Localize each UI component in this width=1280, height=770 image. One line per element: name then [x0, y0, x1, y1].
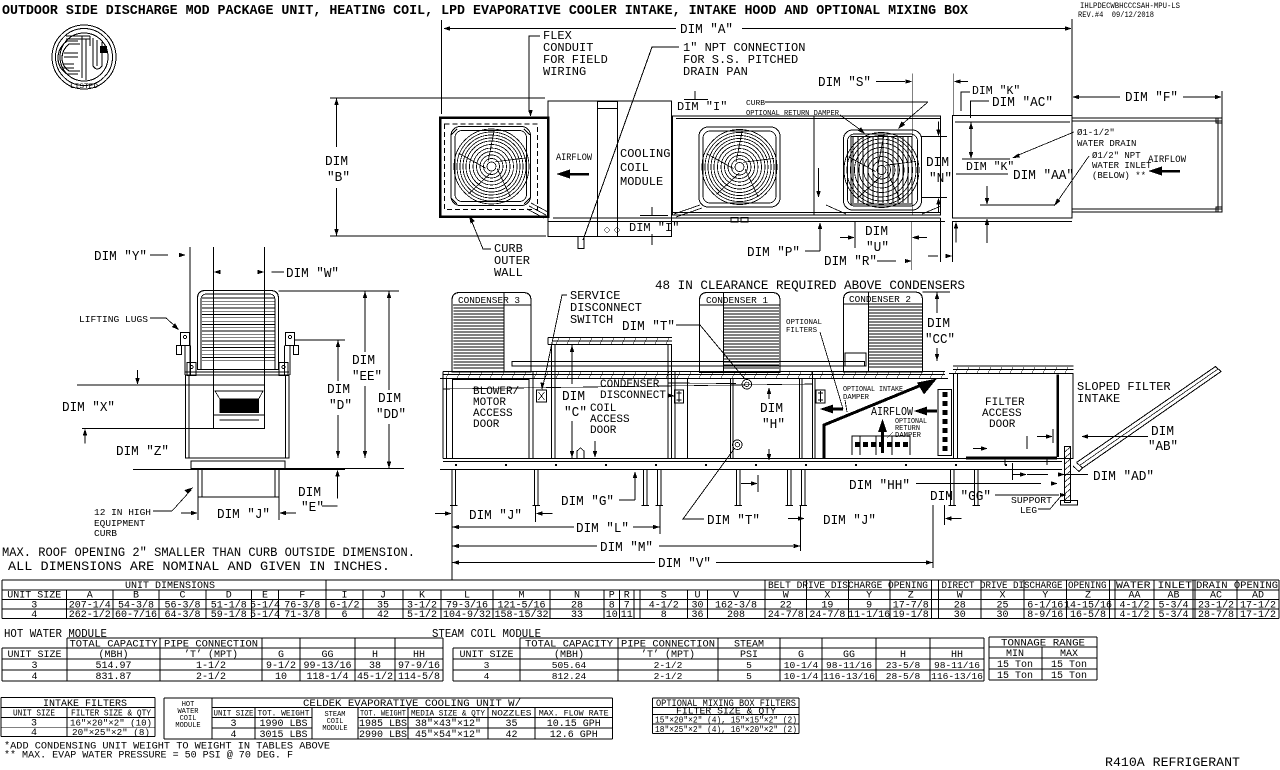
- svg-text:WIRING: WIRING: [543, 65, 586, 79]
- dim D: [295, 339, 345, 341]
- optional mixing box filters table: [653, 698, 800, 735]
- svg-text:DIM ″I″: DIM ″I″: [677, 100, 727, 114]
- plan main unit body: [673, 116, 941, 215]
- condensate pan slope line: [443, 384, 812, 389]
- panel disconnect box left: [675, 390, 684, 403]
- svg-text:30: 30: [996, 610, 1008, 621]
- svg-text:42: 42: [377, 610, 389, 621]
- svg-text:DOOR: DOOR: [989, 419, 1016, 431]
- receptacle circle bottom: [733, 440, 743, 450]
- svg-text:10-1/4: 10-1/4: [784, 671, 819, 682]
- svg-text:DIM: DIM: [327, 382, 350, 398]
- door right jamb: [528, 380, 530, 459]
- svg-text:97-9/16: 97-9/16: [398, 660, 440, 672]
- svg-text:98-11/16: 98-11/16: [826, 660, 872, 671]
- filter access door box: [954, 374, 1074, 459]
- svg-text:1985 LBS: 1985 LBS: [359, 719, 407, 730]
- dim A extension line right: [1071, 19, 1073, 118]
- svg-text:5: 5: [746, 660, 752, 671]
- dim EE: [363, 291, 367, 298]
- dim X: [77, 384, 214, 386]
- svg-text:″E″: ″E″: [301, 500, 324, 516]
- svg-text:AIRFLOW: AIRFLOW: [1148, 154, 1187, 166]
- svg-text:″H″: ″H″: [762, 417, 785, 433]
- svg-text:45-1/2: 45-1/2: [357, 671, 393, 683]
- svg-text:262-1/2: 262-1/2: [69, 609, 111, 621]
- svg-text:4: 4: [484, 671, 490, 682]
- svg-text:831.87: 831.87: [95, 672, 131, 683]
- module bottom curb: [953, 221, 1073, 223]
- svg-text:4: 4: [31, 672, 37, 683]
- plan chamfer fanbox to module: [531, 203, 548, 212]
- svg-text:DIM: DIM: [760, 401, 783, 417]
- svg-text:MAX. FLOW RATE: MAX. FLOW RATE: [539, 709, 609, 719]
- condenser fan 3 with grille (plan): [844, 130, 922, 210]
- svg-text:10: 10: [606, 610, 618, 621]
- svg-text:104-9/32: 104-9/32: [443, 609, 491, 621]
- heating coil module walls: [551, 345, 553, 459]
- svg-text:H: H: [372, 650, 378, 661]
- filter door bottom thick: [966, 457, 1057, 460]
- svg-text:TOT. WEIGHT: TOT. WEIGHT: [258, 709, 310, 719]
- svg-text:DIM ″L″: DIM ″L″: [576, 521, 629, 537]
- ETL listed logo: [52, 25, 116, 90]
- svg-text:Ø1-1/2″: Ø1-1/2″: [1077, 128, 1115, 138]
- 1in NPT leader: [583, 47, 679, 240]
- dim H: [767, 387, 771, 394]
- door dim ticks: [1026, 436, 1028, 449]
- svg-text:DIM: DIM: [562, 389, 585, 405]
- svg-text:24-7/8: 24-7/8: [809, 609, 845, 621]
- svg-text:DIM: DIM: [325, 154, 348, 170]
- intake filters table: [1, 698, 155, 740]
- svg-text:19-1/8: 19-1/8: [893, 609, 929, 621]
- svg-text:DIM ″J″: DIM ″J″: [823, 513, 876, 529]
- lug posts: [184, 346, 186, 376]
- svg-text:COOLING: COOLING: [620, 147, 670, 161]
- svg-text:OUTDOOR SIDE DISCHARGE MOD PAC: OUTDOOR SIDE DISCHARGE MOD PACKAGE UNIT,…: [2, 3, 969, 19]
- svg-text:20″×25″×2″ (8): 20″×25″×2″ (8): [72, 728, 150, 738]
- svg-text:4: 4: [31, 610, 37, 621]
- tonnage range table: [989, 637, 1097, 682]
- dim N: [921, 136, 947, 138]
- condenser 3: [452, 293, 531, 373]
- flex conduit leader: [529, 36, 540, 112]
- cooling coil slab: [597, 101, 599, 237]
- svg-text:TOTAL CAPACITY: TOTAL CAPACITY: [70, 640, 158, 651]
- svg-text:DAMPER: DAMPER: [843, 394, 869, 402]
- cooling module drain feet: [578, 237, 584, 249]
- svg-text:16″×20″×2″ (10): 16″×20″×2″ (10): [70, 719, 152, 729]
- svg-text:FILTERS: FILTERS: [786, 327, 817, 335]
- svg-text:8: 8: [661, 610, 667, 621]
- dim I plan label bottom: [640, 215, 668, 217]
- intake hood (plan): [1072, 118, 1222, 212]
- svg-text:STEAM: STEAM: [734, 640, 764, 651]
- svg-text:COIL: COIL: [620, 161, 649, 175]
- svg-text:38″×43″×12″: 38″×43″×12″: [415, 718, 481, 730]
- equipment curb (end view): [198, 470, 279, 498]
- svg-text:DIM ″GG″: DIM ″GG″: [930, 489, 991, 505]
- side view deck: [443, 371, 945, 373]
- svg-text:TOT. WEIGHT: TOT. WEIGHT: [360, 709, 406, 719]
- svg-text:WATER INLET: WATER INLET: [1092, 161, 1152, 171]
- svg-text:15 Ton: 15 Ton: [997, 671, 1033, 682]
- svg-text:NOZZLES: NOZZLES: [492, 709, 532, 719]
- svg-text:24-7/8: 24-7/8: [768, 609, 804, 621]
- svg-text:GG: GG: [321, 650, 333, 661]
- mid bay seams: [674, 372, 676, 459]
- svg-text:10-1/4: 10-1/4: [784, 660, 819, 671]
- svg-text:WATER DRAIN: WATER DRAIN: [1077, 139, 1136, 149]
- svg-text:DIM ″F″: DIM ″F″: [1125, 90, 1178, 106]
- svg-text:11-1/16: 11-1/16: [848, 609, 890, 621]
- svg-text:″N″: ″N″: [929, 171, 952, 187]
- svg-text:116-13/16: 116-13/16: [823, 671, 875, 682]
- svg-text:MODULE: MODULE: [620, 175, 663, 189]
- svg-text:″B″: ″B″: [327, 170, 350, 186]
- sloped filter lower cap: [1073, 463, 1083, 472]
- svg-text:CURB: CURB: [746, 100, 766, 108]
- svg-text:DIM ″X″: DIM ″X″: [62, 400, 115, 416]
- svg-text:35: 35: [505, 719, 517, 730]
- svg-text:DIRECT DRIVE DISCHARGE OPENING: DIRECT DRIVE DISCHARGE OPENING: [942, 581, 1107, 592]
- fan1 corner clips: [451, 129, 530, 204]
- svg-text:DIM ″W″: DIM ″W″: [286, 266, 339, 282]
- svg-text:DIM ″V″: DIM ″V″: [658, 556, 711, 572]
- svg-text:48 IN CLEARANCE REQUIRED ABOVE: 48 IN CLEARANCE REQUIRED ABOVE CONDENSER…: [655, 279, 965, 293]
- svg-text:OPTIONAL RETURN DAMPER: OPTIONAL RETURN DAMPER: [746, 110, 839, 118]
- fan1 shroud: [451, 127, 531, 206]
- svg-text:″DD″: ″DD″: [376, 407, 406, 423]
- svg-text:DIM ″AA″: DIM ″AA″: [1013, 168, 1074, 184]
- lifting lugs: [181, 333, 190, 346]
- side view legs: [451, 470, 453, 506]
- svg-text:28-5/8: 28-5/8: [886, 671, 921, 682]
- svg-text:TONNAGE RANGE: TONNAGE RANGE: [1001, 639, 1085, 650]
- dim J end view: [197, 497, 199, 520]
- airflow arrow side view: [914, 407, 927, 416]
- service disconnect switch box: [537, 390, 547, 402]
- svg-text:17-1/2: 17-1/2: [1240, 609, 1276, 621]
- return damper up arrow: [878, 419, 887, 432]
- svg-text:3015 LBS: 3015 LBS: [259, 730, 307, 741]
- svg-text:5-3/4: 5-3/4: [1158, 609, 1188, 621]
- svg-text:12.6 GPH: 12.6 GPH: [550, 730, 598, 741]
- svg-text:3: 3: [230, 719, 236, 730]
- svg-text:BELT DRIVE DISCHARGE OPENING: BELT DRIVE DISCHARGE OPENING: [768, 581, 928, 592]
- unit dimensions table: [2, 580, 1279, 621]
- dim V: [452, 560, 459, 564]
- svg-text:DOOR: DOOR: [473, 419, 500, 431]
- svg-text:60-7/16: 60-7/16: [115, 609, 157, 621]
- dim W: [214, 270, 221, 274]
- svg-text:AIRFLOW: AIRFLOW: [556, 153, 592, 164]
- svg-text:LEG: LEG: [1020, 505, 1037, 516]
- svg-text:WALL: WALL: [494, 266, 523, 280]
- filter rack column: [938, 390, 952, 456]
- svg-text:DIM: DIM: [927, 316, 950, 332]
- svg-text:CONDENSER 3: CONDENSER 3: [458, 296, 520, 306]
- svg-text:DIM ″M″: DIM ″M″: [600, 540, 653, 556]
- svg-text:DIM ″T″: DIM ″T″: [707, 513, 760, 529]
- dim K top: [953, 74, 955, 116]
- filter door right thick edge: [1056, 375, 1059, 458]
- svg-text:DIM ″R″: DIM ″R″: [824, 254, 877, 270]
- svg-text:CURB: CURB: [94, 528, 117, 539]
- dim C: [570, 345, 574, 352]
- receptacle circle top: [742, 380, 752, 390]
- dim U: [854, 222, 856, 248]
- svg-text:3: 3: [484, 660, 490, 671]
- svg-text:2-1/2: 2-1/2: [196, 671, 226, 683]
- dim B dimension: [330, 97, 545, 99]
- svg-text:DIM ″J″: DIM ″J″: [469, 508, 522, 524]
- plan unit bay seam: [813, 116, 815, 215]
- svg-text:5-1/4: 5-1/4: [250, 609, 280, 621]
- blower motor access door: [453, 380, 530, 459]
- svg-text:OPTIONAL: OPTIONAL: [786, 319, 822, 327]
- svg-text:LIFTING LUGS: LIFTING LUGS: [79, 314, 148, 325]
- condenser 1: [700, 293, 781, 373]
- mixing box module (plan): [953, 116, 1073, 219]
- svg-text:3: 3: [31, 661, 37, 672]
- end view extension verticals: [189, 247, 191, 375]
- svg-text:INTAKE: INTAKE: [1077, 392, 1120, 406]
- filter door roof: [953, 365, 1074, 367]
- svg-text:ALL DIMENSIONS ARE NOMINAL AND: ALL DIMENSIONS ARE NOMINAL AND GIVEN IN …: [8, 560, 390, 574]
- svg-text:1990 LBS: 1990 LBS: [259, 719, 307, 730]
- svg-text:8-9/16: 8-9/16: [1027, 609, 1063, 621]
- chamfer right of fan3: [826, 205, 846, 214]
- svg-text:18″×25″×2″ (4), 16″×20″×2″ (2): 18″×25″×2″ (4), 16″×20″×2″ (2): [655, 724, 797, 735]
- svg-text:UNIT SIZE: UNIT SIZE: [7, 650, 61, 661]
- svg-text:WATER INLET: WATER INLET: [1116, 581, 1192, 592]
- svg-text:DIM ″T″: DIM ″T″: [622, 319, 675, 335]
- end view base: [186, 457, 290, 459]
- svg-text:MEDIA SIZE & QTY: MEDIA SIZE & QTY: [411, 709, 486, 719]
- svg-text:LISTED: LISTED: [70, 83, 98, 90]
- svg-text:10.15 GPH: 10.15 GPH: [547, 719, 601, 730]
- svg-text:DIM ″S″: DIM ″S″: [818, 75, 871, 91]
- dim AB: [1046, 434, 1053, 438]
- svg-text:9-1/2: 9-1/2: [266, 660, 296, 672]
- svg-text:MAX: MAX: [1060, 649, 1078, 660]
- svg-text:DIM ″Z″: DIM ″Z″: [116, 444, 169, 460]
- return damper grille: [852, 436, 910, 455]
- plan curb lines below unit: [553, 217, 941, 219]
- airflow arrow (plan left): [556, 170, 570, 179]
- svg-text:MIN: MIN: [1006, 649, 1024, 660]
- celdek evaporative cooling table: [164, 698, 613, 741]
- svg-text:36: 36: [691, 610, 703, 621]
- svg-text:DIM ″G″: DIM ″G″: [561, 494, 614, 510]
- hot water module table: [2, 628, 443, 683]
- dim L: [659, 505, 661, 534]
- louvered discharge hood (end view): [198, 291, 279, 370]
- svg-text:505.64: 505.64: [552, 660, 587, 671]
- svg-text:116-13/16: 116-13/16: [931, 671, 983, 682]
- condenser fan 2 (plan): [699, 127, 780, 207]
- discharge opening (end view): [214, 385, 265, 429]
- svg-text:MODULE: MODULE: [322, 725, 347, 733]
- svg-text:15 Ton: 15 Ton: [1051, 671, 1087, 682]
- svg-text:PIPE CONNECTION: PIPE CONNECTION: [164, 640, 258, 651]
- svg-text:SWITCH: SWITCH: [570, 313, 613, 327]
- heating coil module roof: [548, 337, 672, 339]
- support leg: [1065, 447, 1071, 503]
- svg-text:(MBH): (MBH): [98, 649, 128, 661]
- svg-text:71-3/8: 71-3/8: [284, 609, 320, 621]
- dim HH: [757, 475, 759, 492]
- svg-text:DIM: DIM: [865, 224, 888, 240]
- svg-text:59-1/8: 59-1/8: [211, 609, 247, 621]
- dim DD: [279, 290, 400, 292]
- svg-text:DIM: DIM: [926, 155, 949, 171]
- svg-text:MAX. ROOF OPENING 2″ SMALLER T: MAX. ROOF OPENING 2″ SMALLER THAN CURB O…: [2, 546, 415, 560]
- svg-text:REV.#4 09/12/2018: REV.#4 09/12/2018: [1078, 10, 1154, 20]
- svg-text:″EE″: ″EE″: [352, 369, 382, 385]
- svg-text:DOOR: DOOR: [590, 425, 617, 437]
- svg-text:118-1/4: 118-1/4: [306, 671, 348, 683]
- screws under filter door: [1002, 459, 1051, 465]
- dim J side left: [451, 505, 453, 580]
- svg-text:DIM ″I″: DIM ″I″: [629, 221, 679, 235]
- svg-text:″AB″: ″AB″: [1148, 439, 1178, 455]
- svg-text:G: G: [278, 650, 284, 661]
- svg-text:DISCONNECT: DISCONNECT: [600, 390, 666, 402]
- svg-text:158-15/32: 158-15/32: [494, 609, 548, 621]
- dim S: [911, 74, 913, 216]
- svg-text:99-13/16: 99-13/16: [303, 660, 351, 672]
- svg-text:DIM ″P″: DIM ″P″: [747, 245, 800, 261]
- svg-text:DIM ″HH″: DIM ″HH″: [849, 478, 910, 494]
- steam coil module table: [432, 628, 984, 682]
- svg-text:DIM: DIM: [298, 485, 321, 501]
- svg-text:28-7/8: 28-7/8: [1198, 609, 1234, 621]
- svg-text:DIM ″A″: DIM ″A″: [680, 22, 733, 38]
- svg-text:15 Ton: 15 Ton: [1051, 660, 1087, 671]
- svg-text:42: 42: [505, 730, 517, 741]
- svg-text:DIM ″Y″: DIM ″Y″: [94, 249, 147, 265]
- dim CC: [923, 291, 951, 293]
- svg-text:DIM ″AD″: DIM ″AD″: [1093, 469, 1154, 485]
- svg-text:11: 11: [621, 610, 633, 621]
- svg-text:16-5/8: 16-5/8: [1070, 609, 1106, 621]
- svg-text:38: 38: [369, 661, 381, 672]
- door latch: [577, 448, 584, 458]
- svg-text:UNIT SIZE: UNIT SIZE: [13, 709, 55, 719]
- svg-text:″C″: ″C″: [564, 405, 587, 421]
- svg-text:(BELOW) **: (BELOW) **: [1092, 171, 1146, 181]
- condenser 2: [844, 292, 923, 372]
- dim F: [1221, 91, 1223, 118]
- svg-text:64-3/8: 64-3/8: [164, 609, 200, 621]
- svg-text:10: 10: [275, 672, 287, 683]
- sloped filter slab: [1077, 367, 1222, 469]
- svg-text:30: 30: [954, 610, 966, 621]
- second airflow arrow: [820, 405, 833, 414]
- svg-text:AIRFLOW: AIRFLOW: [871, 405, 914, 419]
- svg-text:CONDENSER 1: CONDENSER 1: [706, 296, 768, 306]
- svg-text:″D″: ″D″: [329, 398, 352, 414]
- dim A dimension line: [443, 26, 450, 30]
- svg-text:514.97: 514.97: [95, 661, 131, 672]
- svg-text:FILTER SIZE & QTY: FILTER SIZE & QTY: [71, 709, 152, 719]
- condenser fan 1 box (plan): [440, 118, 548, 217]
- end view cabinet: [186, 375, 290, 458]
- fan1 hidden curb dashed: [445, 124, 538, 210]
- dim AD: [1012, 463, 1014, 480]
- svg-text:PIPE CONNECTION: PIPE CONNECTION: [621, 640, 715, 651]
- svg-text:5-1/2: 5-1/2: [407, 609, 437, 621]
- svg-text:4: 4: [31, 728, 37, 739]
- svg-text:98-11/16: 98-11/16: [934, 660, 980, 671]
- intake damper blade: [824, 382, 930, 459]
- coil module small top rect: [598, 102, 618, 109]
- svg-text:MODULE: MODULE: [175, 722, 200, 730]
- fan1 blades and guard rings: [454, 129, 529, 204]
- side view base band: [443, 458, 1062, 460]
- svg-text:’T’ (MPT): ’T’ (MPT): [184, 649, 238, 661]
- svg-text:6: 6: [341, 610, 347, 621]
- fan3 inner frame: [851, 137, 912, 205]
- hood airflow arrow: [1148, 167, 1162, 176]
- svg-text:OPTIONAL INTAKE: OPTIONAL INTAKE: [843, 386, 903, 394]
- svg-text:5: 5: [746, 671, 752, 682]
- panel disconnect box right: [816, 390, 825, 403]
- svg-text:2-1/2: 2-1/2: [654, 660, 683, 671]
- svg-text:DRAIN PAN: DRAIN PAN: [683, 65, 748, 79]
- svg-text:DIM ″J″: DIM ″J″: [217, 507, 270, 523]
- svg-text:812.24: 812.24: [552, 671, 587, 682]
- svg-text:15 Ton: 15 Ton: [997, 660, 1033, 671]
- svg-text:23-5/8: 23-5/8: [886, 660, 921, 671]
- fan3 grille bars: [853, 137, 908, 203]
- dim A extension line left: [441, 20, 443, 114]
- svg-text:HH: HH: [413, 650, 425, 661]
- svg-text:Ø1/2″ NPT: Ø1/2″ NPT: [1092, 151, 1141, 161]
- dim M: [452, 544, 459, 548]
- svg-text:DIM: DIM: [352, 353, 375, 369]
- svg-text:TOTAL CAPACITY: TOTAL CAPACITY: [525, 640, 613, 651]
- svg-text:114-5/8: 114-5/8: [398, 671, 440, 683]
- svg-text:DIM: DIM: [1151, 424, 1174, 440]
- svg-text:DIM: DIM: [378, 391, 401, 407]
- svg-text:45″×54″×12″: 45″×54″×12″: [415, 729, 481, 741]
- chamfer left of fan2: [674, 205, 700, 214]
- svg-text:12 IN HIGH: 12 IN HIGH: [94, 507, 151, 518]
- svg-text:DRAIN OPENING: DRAIN OPENING: [1196, 581, 1278, 592]
- cooling coil module box (plan): [548, 101, 672, 237]
- svg-text:** MAX. EVAP WATER PRESSURE =: ** MAX. EVAP WATER PRESSURE = 50 PSI @ 7…: [4, 750, 293, 762]
- svg-text:2-1/2: 2-1/2: [654, 671, 683, 682]
- svg-text:2990 LBS: 2990 LBS: [359, 730, 407, 741]
- svg-text:UNIT SIZE: UNIT SIZE: [214, 709, 254, 719]
- svg-text:R410A REFRIGERANT: R410A REFRIGERANT: [1105, 756, 1241, 770]
- svg-text:4-1/2: 4-1/2: [1119, 609, 1149, 621]
- side view cabinet left wall: [442, 372, 444, 459]
- dim J side right: [798, 516, 805, 520]
- water drain line and dim K inner: [962, 158, 1010, 160]
- svg-text:DIM ″AC″: DIM ″AC″: [992, 95, 1053, 111]
- svg-text:DIM ″K″: DIM ″K″: [966, 161, 1014, 174]
- dim P inner arrow: [818, 168, 820, 185]
- svg-text:″CC″: ″CC″: [925, 332, 955, 348]
- module bottom small dim: [940, 218, 942, 262]
- svg-text:4: 4: [230, 730, 236, 741]
- svg-text:208: 208: [727, 610, 745, 621]
